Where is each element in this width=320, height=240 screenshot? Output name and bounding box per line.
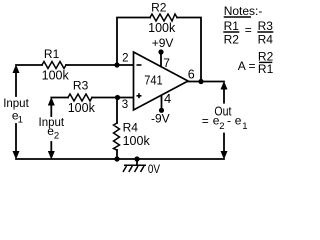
svg-text:+9V: +9V [152, 36, 174, 50]
svg-text:R4: R4 [123, 121, 139, 135]
svg-text:R2: R2 [151, 1, 167, 15]
wire: input e1 indicator bottom segment [15, 124, 17, 152]
svg-text:e: e [235, 114, 242, 128]
arrowhead: input e2 down [48, 151, 55, 160]
wire: R3 right lead to op-amp pin 3 [92, 97, 134, 99]
wire: input e2 indicator bottom segment [50, 142, 52, 152]
svg-text:R1: R1 [224, 19, 240, 33]
wire: feedback loop right leg down to output node [177, 18, 201, 82]
wire: ground stub from rail [136, 159, 138, 165]
svg-text:R3: R3 [258, 19, 274, 33]
junction: ground at rail [134, 156, 139, 161]
svg-text:100k: 100k [123, 134, 151, 148]
junction: feedback at pin 2 [114, 62, 119, 67]
svg-text:-: - [227, 114, 231, 128]
svg-text:1: 1 [242, 121, 247, 132]
svg-text:2: 2 [219, 121, 224, 132]
svg-text:100k: 100k [148, 21, 176, 35]
arrowhead: input e1 up [13, 65, 20, 74]
svg-text:R2: R2 [224, 33, 240, 47]
resistor R2 [150, 14, 177, 21]
svg-text:Notes:-: Notes:- [224, 4, 263, 18]
wire: R1 right lead to op-amp pin 2 [66, 64, 134, 66]
wire: e1 node to R1 left lead [16, 64, 42, 66]
wire: input e1 indicator top segment [15, 71, 17, 96]
junction: feedback at output [198, 79, 203, 84]
resistor R4 [114, 123, 120, 150]
svg-text:7: 7 [163, 56, 170, 70]
svg-text:4: 4 [164, 91, 171, 106]
svg-text:R1: R1 [44, 47, 60, 61]
inverting input marker (-) [137, 64, 142, 66]
wire: pin-3 node down to R4 top lead [116, 98, 118, 124]
arrowhead: input e1 down [13, 151, 20, 160]
svg-text:741: 741 [144, 72, 163, 87]
arrowhead: input e2 up [48, 97, 55, 106]
arrowhead: output down [221, 151, 228, 160]
arrowhead: output up [221, 81, 228, 90]
resistor R3 [68, 94, 92, 101]
power -9V terminal dot [159, 108, 164, 113]
wire: op-amp output pin 6 to out node [188, 81, 224, 83]
svg-text:-9V: -9V [151, 112, 170, 126]
wire: R4 bottom lead to 0V rail [116, 150, 118, 159]
svg-text:2: 2 [54, 131, 59, 142]
wire: input e2 indicator top segment [50, 104, 52, 116]
svg-text:=: = [245, 23, 252, 37]
op-amp U1 741 body [134, 52, 189, 110]
ground symbol (chassis earth) [123, 165, 146, 172]
svg-text:R3: R3 [73, 79, 89, 93]
junction: R3/R4 at pin 3 [115, 95, 120, 100]
power +9V terminal dot [158, 49, 163, 54]
svg-text:6: 6 [188, 67, 195, 81]
wire: feedback loop left leg up from pin-2 node [117, 18, 150, 66]
svg-text:A =: A = [238, 59, 256, 73]
svg-text:0V: 0V [148, 164, 160, 176]
wire: output indicator top segment [223, 88, 225, 103]
svg-text:2: 2 [122, 52, 128, 64]
resistor R1 [42, 62, 66, 69]
svg-text:R1: R1 [258, 62, 274, 76]
wire: pin 4 to -9V terminal [161, 94, 163, 110]
wire: e2 node to R3 left lead [51, 97, 68, 99]
svg-text:100k: 100k [42, 69, 70, 83]
svg-text:3: 3 [122, 99, 128, 111]
svg-text:100k: 100k [68, 101, 96, 115]
svg-text:1: 1 [18, 114, 23, 125]
wire: pin 7 to +9V terminal [160, 52, 162, 68]
svg-text:=: = [202, 114, 209, 128]
non-inverting input marker (+) [137, 93, 142, 98]
svg-text:R4: R4 [258, 33, 274, 47]
wire: 0V bottom rail [16, 158, 224, 160]
junction: R4 at rail [114, 156, 119, 161]
wire: output indicator bottom segment [223, 134, 225, 153]
